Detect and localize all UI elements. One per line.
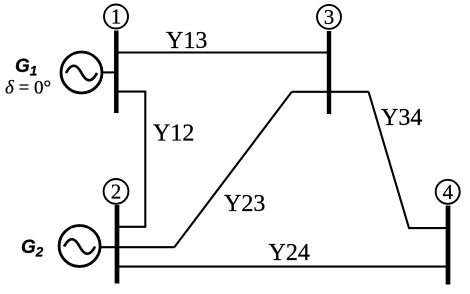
bus 2 bar (115, 205, 120, 284)
wire: trapezoid top horizontal crossing bus 3 (292, 91, 369, 93)
svg-text:Y13: Y13 (166, 28, 207, 54)
svg-text:Y23: Y23 (224, 191, 265, 217)
wire: G2 stub through bus 2 continuing as Y23 horizontal run (100, 246, 174, 248)
svg-text:δ = 0°: δ = 0° (5, 78, 51, 99)
bus 1 bar (114, 31, 119, 114)
wire: line Y24 (bus 2 to bus 4) (117, 266, 448, 268)
wire: line Y12 (bus 1 to bus 2) (116, 92, 145, 227)
svg-text:3: 3 (324, 5, 335, 29)
wire: G1 stub to bus 1 (102, 71, 115, 73)
svg-text:Y24: Y24 (269, 240, 310, 266)
generator G2 (AC source symbol) (59, 226, 100, 267)
svg-text:Y12: Y12 (153, 121, 194, 147)
bus 4 bar (446, 206, 451, 285)
wire: line Y34 (bus 3 corner down to bus 4) (369, 92, 448, 228)
wire: line Y13 (bus 1 to bus 3) (116, 51, 329, 53)
bus 3 bar (327, 31, 331, 114)
svg-text:4: 4 (442, 180, 453, 204)
node 1 (circled bus number 1) (104, 5, 128, 29)
node 3 (circled bus number 3) (317, 5, 341, 29)
svg-text:Y34: Y34 (381, 105, 422, 131)
svg-text:2: 2 (111, 179, 122, 203)
wire: line Y23 diagonal (bus 2 run up to bus 3 trapezoid corner) (174, 92, 291, 247)
node 2 (circled bus number 2) (104, 179, 129, 204)
generator G1 (AC source symbol) (61, 52, 102, 93)
svg-text:1: 1 (111, 5, 122, 29)
node 4 (circled bus number 4) (436, 180, 460, 204)
